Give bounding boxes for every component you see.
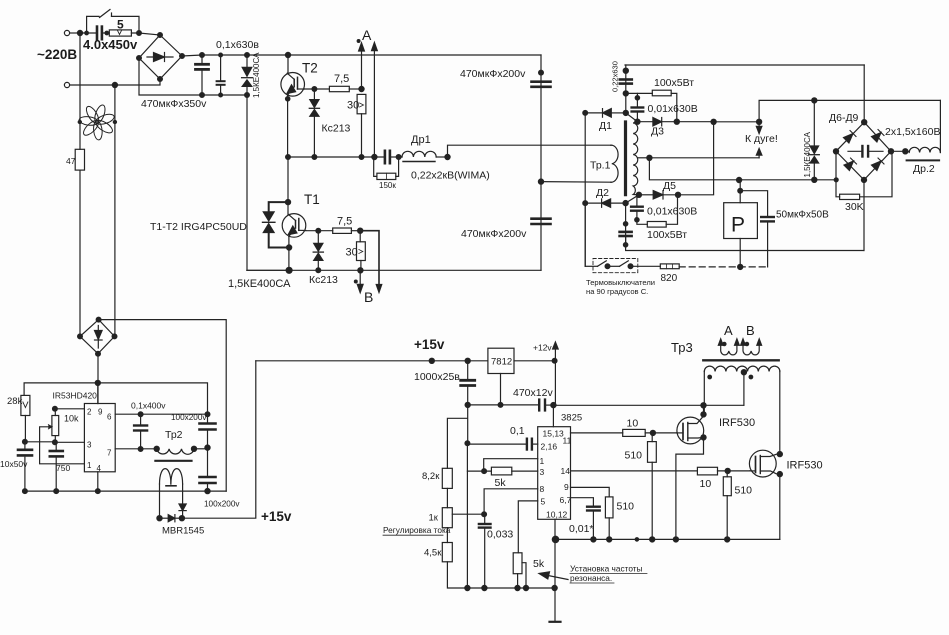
IC 3825 box (538, 427, 572, 520)
wire: 470x200 bus vertical (540, 55, 542, 270)
resistor 30 (T2) (347, 94, 366, 157)
svg-text:8: 8 (540, 484, 545, 494)
svg-text:10: 10 (627, 418, 639, 430)
svg-text:7812: 7812 (491, 357, 512, 368)
arrow +12v (553, 342, 559, 361)
svg-text:Кс213: Кс213 (309, 274, 338, 286)
MOSFET VT2 IRF530 lower (749, 450, 776, 477)
transistor T1 (IGBT) (282, 214, 306, 238)
transformer Tr2 primary (157, 446, 208, 454)
capacitor 0,1x400v (134, 414, 147, 449)
resistor 5k (pin3) (491, 467, 537, 489)
resistor 47 (66, 149, 85, 170)
svg-text:1,5КЕ400СА: 1,5КЕ400СА (252, 52, 261, 98)
transformer Tr1 core (624, 122, 627, 195)
diode D8 lower-left arm (844, 161, 854, 171)
wire 28k to 10k bottom (25, 441, 55, 443)
wire T1 gate (306, 230, 333, 232)
node: live input (77, 30, 82, 35)
arrow B1 (emitter) (357, 270, 363, 292)
svg-text:7,5: 7,5 (334, 73, 349, 85)
node mid chain (205, 445, 210, 450)
node 0,033 top (482, 512, 487, 517)
wire pin9 (571, 487, 610, 497)
wire T2 gate (304, 88, 329, 90)
wire into thermal switches (585, 265, 597, 267)
svg-text:0,1: 0,1 (510, 425, 525, 437)
wire pin9 top (97, 383, 99, 404)
wire: +15v rail (256, 360, 488, 362)
svg-text:A: A (362, 27, 372, 43)
wire pin6 (115, 413, 207, 415)
svg-text:1: 1 (540, 456, 545, 466)
svg-text:6,7: 6,7 (560, 495, 572, 505)
arrow A2 (emitter return) (372, 42, 378, 157)
svg-text:30: 30 (346, 247, 358, 259)
svg-text:28k: 28k (7, 396, 23, 407)
capacitor 0,033 (479, 514, 491, 588)
inductor Dr1 (402, 151, 436, 161)
capacitor 750 (50, 442, 71, 491)
wire: cathode bus to thermal (584, 203, 586, 266)
svg-text:IR53HD420: IR53HD420 (53, 391, 98, 401)
arrow to 5k pot (539, 572, 568, 580)
svg-text:10,12: 10,12 (546, 510, 568, 520)
svg-text:150к: 150к (379, 181, 396, 190)
wire: source return rail (556, 538, 780, 540)
resistor 510 (pin9) (605, 497, 634, 540)
node 510 upper bottom (650, 537, 655, 542)
svg-text:510: 510 (625, 450, 643, 462)
svg-text:Тр2: Тр2 (165, 429, 183, 441)
svg-text:Д1: Д1 (599, 120, 612, 132)
resistor 30K (836, 151, 892, 213)
node pin2 / 10k top (53, 406, 58, 411)
node 510 bottom (607, 537, 612, 542)
capacitor 470mkFx200v top (532, 70, 551, 87)
svg-text:1,5КЕ400СА: 1,5КЕ400СА (803, 131, 812, 177)
bridge rectifier VD1 (input diamond) (137, 33, 185, 82)
node vcc (551, 403, 556, 408)
svg-text:Установка частоты: Установка частоты (570, 564, 643, 574)
node T1 gate (316, 228, 321, 233)
resistor 8,2k (422, 468, 452, 488)
capacitor 0,1 (pin 2,16) (467, 439, 537, 450)
wire 8,2k to 1k (446, 488, 448, 507)
capacitor 470x12v (539, 400, 545, 411)
svg-text:1к: 1к (429, 513, 439, 524)
svg-text:T2: T2 (302, 61, 318, 76)
svg-text:0,033: 0,033 (487, 529, 513, 541)
wire drain riser lower (779, 372, 781, 455)
svg-text:MBR1545: MBR1545 (162, 526, 204, 537)
resistor 10 (lower gate) (697, 467, 749, 490)
wire: center tap down-route (649, 158, 836, 180)
svg-text:3: 3 (87, 441, 92, 450)
capacitor 4.0x450v (97, 27, 102, 40)
svg-text:+12v: +12v (533, 343, 552, 353)
wire: top rail (snubber bus) (625, 64, 864, 66)
svg-text:100х5Вт: 100х5Вт (654, 77, 694, 89)
node 0,1 tie (465, 441, 470, 446)
node pin1/3 junction (482, 469, 487, 474)
svg-text:5: 5 (541, 497, 546, 507)
wire 4,5k to bottom rail (447, 562, 555, 588)
wire bus mid to Tr1 bottom (541, 181, 611, 184)
wire P top pin (738, 180, 743, 203)
resistor 30 (T1) (346, 231, 366, 271)
node: top rail to T2 collector (285, 52, 290, 57)
svg-text:820: 820 (661, 273, 678, 284)
svg-text:510: 510 (735, 485, 753, 497)
svg-text:8,2к: 8,2к (422, 471, 440, 482)
wire: control ground rail (25, 490, 226, 492)
diode D7 upper-right arm (872, 133, 882, 143)
transformer Tr1 primary winding (611, 145, 618, 182)
wire source route (676, 437, 704, 539)
capacitor 0,22x2kV WIMA (385, 151, 402, 163)
wire gate resistor to node (349, 88, 361, 90)
svg-text:0,22x630: 0,22x630 (611, 61, 620, 92)
svg-text:Кс213: Кс213 (322, 123, 351, 135)
wire: mid rail (T2 emitter / T1 collector) (288, 156, 385, 158)
regulator 7812 (488, 348, 514, 373)
inductor Dr2 (907, 147, 941, 160)
svg-text:2х1,5х160В: 2х1,5х160В (885, 126, 940, 138)
node drain tie (701, 412, 706, 417)
resistor 7,5 (T2 gate) (329, 73, 349, 92)
TVS 1,5KE400CA (output clamp) (809, 98, 819, 183)
wire T1 collector column (287, 157, 289, 215)
wire drain riser (703, 405, 705, 414)
node 7812 gnd (498, 403, 503, 408)
svg-text:Др1: Др1 (411, 134, 431, 146)
wire 7812 out (514, 360, 555, 362)
node dot near B (354, 280, 357, 283)
resistor 28k (7, 395, 30, 441)
capacitor 0,22x630 top (620, 80, 632, 84)
resistor 4,5k (424, 543, 452, 562)
svg-text:+15v: +15v (261, 509, 292, 524)
svg-text:Термовыключатели: Термовыключатели (586, 278, 655, 287)
node upper gate (650, 430, 655, 435)
svg-text:10k: 10k (64, 414, 79, 424)
wire (82, 32, 109, 34)
svg-text:IRF530: IRF530 (787, 460, 823, 472)
svg-text:5k: 5k (495, 477, 507, 489)
node pin6 cap (138, 412, 143, 417)
svg-text:Д6-Д9: Д6-Д9 (829, 112, 859, 124)
node 0,01 bottom (591, 537, 596, 542)
node D5 out (675, 192, 680, 197)
capacitor chain 100x200v bottom (200, 448, 216, 492)
transformer Tr2 core (155, 460, 191, 462)
wire T2 collector (287, 55, 289, 74)
wire pin4 bottom (97, 472, 99, 491)
node dot near A (357, 40, 360, 43)
wire: minus rail drop (139, 58, 247, 95)
capacitor chain 100x200v top (200, 412, 216, 448)
wire: T1 emitter rail (247, 269, 541, 271)
TVS 1,5KE400CA (T1 clamp) (263, 202, 290, 247)
capacitor 0,01* (587, 507, 600, 540)
svg-text:T1: T1 (304, 192, 320, 207)
transformer Tr3 primary left riser (703, 372, 705, 415)
svg-text:2: 2 (87, 408, 92, 417)
node after fuse (131, 31, 160, 36)
wire: secondary center tap (638, 155, 653, 160)
svg-text:0,22x2кВ(WIMA): 0,22x2кВ(WIMA) (411, 170, 490, 182)
wire: Dr2 to plus rail (939, 100, 941, 152)
transformer Tr2 secondary (160, 469, 183, 486)
node +12 (552, 358, 557, 363)
thermal switches box (dashed) (593, 259, 638, 273)
bottom rail dots (465, 585, 470, 590)
polarity dot A (723, 342, 726, 345)
wire pin7 (115, 448, 157, 450)
terminal X1 (~220V live) (64, 30, 80, 35)
wire secondary left leg (159, 484, 161, 518)
rail dots (429, 358, 434, 363)
svg-text:470мкФх200v: 470мкФх200v (460, 68, 526, 80)
node T1 collector (285, 200, 290, 205)
svg-text:9: 9 (98, 408, 103, 417)
svg-text:Регулировка тока: Регулировка тока (383, 525, 451, 535)
svg-text:1000х25в: 1000х25в (414, 371, 460, 383)
label Regulirovka toka (383, 525, 451, 535)
capacitor 0,22x630 bottom (620, 232, 632, 236)
potentiometer 1k (429, 508, 453, 528)
fuse F1 5A (105, 30, 131, 36)
node source lower (777, 472, 782, 477)
wire pin10,12 stem (554, 519, 556, 621)
wire to B node (351, 230, 360, 232)
svg-text:Тр3: Тр3 (671, 340, 693, 355)
capacitor 10x50v (18, 442, 32, 491)
node dots on tap bus (737, 177, 742, 182)
MOSFET VT1 IRF530 upper (677, 416, 704, 444)
arrow B2 (gate drive) (360, 231, 382, 293)
label Ustanovka chastoty (570, 564, 643, 584)
wiper wire from 1k (452, 513, 484, 515)
capacitor 0,1x630v (217, 53, 225, 97)
node +15v join (179, 516, 184, 521)
svg-text:на 90 градусов С.: на 90 градусов С. (586, 287, 648, 296)
rail small dot (635, 538, 638, 541)
wire chain top link (447, 418, 467, 468)
bridge rectifier VD2 (aux small diamond) (78, 317, 117, 356)
svg-text:14: 14 (561, 466, 571, 476)
svg-text:30: 30 (347, 100, 359, 112)
svg-text:К дуге!: К дуге! (745, 133, 778, 145)
svg-text:T1-T2 IRG4PC50UD: T1-T2 IRG4PC50UD (150, 221, 247, 233)
resistor 820 (660, 264, 679, 284)
secondary bottom column (626, 195, 639, 246)
wiper wire pin1 (40, 425, 85, 464)
svg-text:470мкФх200v: 470мкФх200v (461, 228, 527, 240)
capacitor 470mkFx200v bottom (532, 219, 551, 224)
node Dr1 out (436, 154, 450, 159)
thermal switch 2 (620, 261, 661, 269)
node 1000 cap bottom (465, 402, 470, 407)
svg-text:Д3: Д3 (651, 126, 664, 138)
wire +12 arrow column (554, 361, 556, 405)
fan M1 (78, 104, 118, 141)
svg-text:B: B (746, 323, 755, 338)
zener Kc213 (T1) (313, 231, 323, 271)
resistor 510 (upper gate) (625, 433, 657, 540)
potentiometer 10k (52, 409, 79, 443)
wire: bottom snubber return (626, 237, 864, 251)
wire: secondary top column (626, 65, 638, 122)
arrow from center tap (756, 148, 762, 157)
svg-text:750: 750 (56, 463, 70, 473)
TVS 1,5KE400CA (bus clamp) (242, 53, 253, 98)
node dots top column (623, 68, 628, 73)
wire: minus bus down to T1 emitter rail (247, 95, 289, 270)
resistor 510 (lower gate) (723, 471, 752, 540)
node source at circle (701, 435, 706, 440)
winding B (741, 339, 762, 355)
wire P bottom pin (738, 239, 743, 270)
resistor 150k (374, 157, 399, 190)
wire: rectified plus line (711, 119, 762, 124)
svg-text:~220В: ~220В (37, 47, 77, 62)
resistor 100x5W top (626, 77, 694, 122)
wire pin1 (484, 459, 538, 471)
node drain lower (777, 452, 782, 457)
node pin7 joins (138, 447, 143, 452)
svg-text:470х12v: 470х12v (513, 387, 553, 399)
wire source lower to rail (779, 474, 781, 539)
arrow A1 (gate drive) (359, 43, 365, 89)
node left leg (157, 516, 162, 521)
capacitor 470uFx350v (196, 53, 209, 98)
wire: mid vertical bus (466, 405, 468, 588)
wire pin8 (484, 489, 538, 514)
wire: +12 distribution line (468, 404, 538, 406)
wire pin14 (571, 470, 698, 472)
svg-text:A: A (724, 323, 733, 338)
svg-text:10: 10 (700, 478, 712, 490)
thermal switch 1 (598, 261, 620, 269)
node dots cathode bus (583, 111, 588, 116)
node T2 gate (312, 87, 317, 92)
transformer Tr3 core (703, 359, 778, 361)
svg-text:11: 11 (563, 436, 572, 446)
node TVS to emitter (287, 245, 292, 250)
polarity dots Tr3 primary (708, 375, 712, 379)
diode D1 (585, 109, 626, 118)
wire: top rail drop to bridge (863, 65, 865, 122)
wire: IC top rail (24, 383, 207, 414)
svg-text:0,01х630В: 0,01х630В (648, 103, 698, 115)
svg-text:10x50v: 10x50v (0, 459, 28, 469)
svg-text:Д2: Д2 (596, 187, 609, 199)
node pin3 / 10k bottom (53, 440, 58, 445)
wire center tap to arc (649, 157, 759, 159)
wire cap to vcc node (546, 404, 555, 406)
svg-text:100х5Вт: 100х5Вт (647, 229, 687, 241)
wire neutral to bridge (115, 79, 160, 85)
diode D2 (585, 199, 625, 207)
node B-drive (358, 228, 363, 233)
svg-text:7: 7 (107, 449, 112, 458)
diode D9 lower-right arm (872, 161, 882, 171)
svg-text:47: 47 (66, 156, 76, 166)
arrow to arc plus (756, 122, 762, 134)
svg-text:5k: 5k (533, 558, 545, 570)
diode D6 upper-left arm (844, 134, 854, 144)
zener Kc213 (T2) (309, 89, 319, 157)
wire: aux AC tie to control ground bus (99, 320, 227, 492)
ground symbol (550, 621, 561, 623)
wire: plus top rail (182, 55, 541, 56)
wire: aux bridge DC out down (97, 354, 99, 404)
svg-text:510: 510 (617, 501, 635, 513)
svg-text:0,1x630в: 0,1x630в (216, 39, 259, 51)
node bus mid (538, 179, 543, 184)
node source rail (673, 537, 678, 542)
wire: plus over-route (759, 100, 940, 121)
svg-text:Тр.1: Тр.1 (590, 160, 611, 172)
svg-text:1: 1 (87, 461, 92, 470)
wire pin2 (55, 408, 85, 410)
wire: D1-D2 cathode bus (584, 113, 586, 266)
svg-text:9: 9 (564, 482, 569, 492)
svg-text:30K: 30K (845, 201, 864, 213)
node 510 lower bottom (725, 537, 730, 542)
diode D5 (639, 191, 678, 199)
IC IR53HD420 box (84, 404, 115, 474)
node dots bottom column (623, 201, 628, 206)
node after cap (396, 155, 401, 160)
node: neutral input (112, 82, 117, 87)
svg-text:B: B (364, 289, 373, 305)
node source rail joint (552, 536, 558, 542)
wire +15v run (182, 361, 256, 518)
capacitor 2x1,5x160V inside (862, 146, 868, 157)
svg-text:3825: 3825 (561, 413, 582, 424)
resistor 10 (upper gate) (623, 418, 677, 437)
node D3 snubber join (674, 119, 679, 124)
svg-text:100x200v: 100x200v (204, 500, 240, 509)
wire 5k feed (467, 470, 491, 472)
capacitor 0,01x630V top (632, 93, 644, 121)
svg-text:Др.2: Др.2 (913, 163, 935, 175)
wire vcc stem into 3825 (552, 405, 554, 427)
wire pin5 (518, 501, 537, 553)
svg-text:50мкФх50В: 50мкФх50В (776, 210, 829, 221)
wire center tap riser (743, 372, 745, 406)
svg-text:2,16: 2,16 (541, 442, 558, 452)
wire T1 emitter (288, 237, 290, 271)
svg-text:4.0x450v: 4.0x450v (83, 37, 138, 52)
switch S1 (bypass) (85, 10, 139, 35)
svg-text:Д5: Д5 (663, 180, 676, 192)
svg-text:15,13: 15,13 (543, 429, 565, 439)
transistor T2 (IGBT) (281, 73, 305, 97)
wire 1k to 4,5k (446, 528, 448, 543)
wire dashed to P (679, 266, 767, 268)
transformer Tr1 secondary winding (633, 122, 639, 195)
svg-text:5: 5 (117, 18, 124, 32)
wiper 5k freq (522, 563, 526, 588)
ground rail dots (23, 489, 28, 494)
svg-text:+15v: +15v (414, 337, 445, 352)
wire T2 emitter down (286, 95, 290, 157)
winding A (718, 339, 739, 355)
